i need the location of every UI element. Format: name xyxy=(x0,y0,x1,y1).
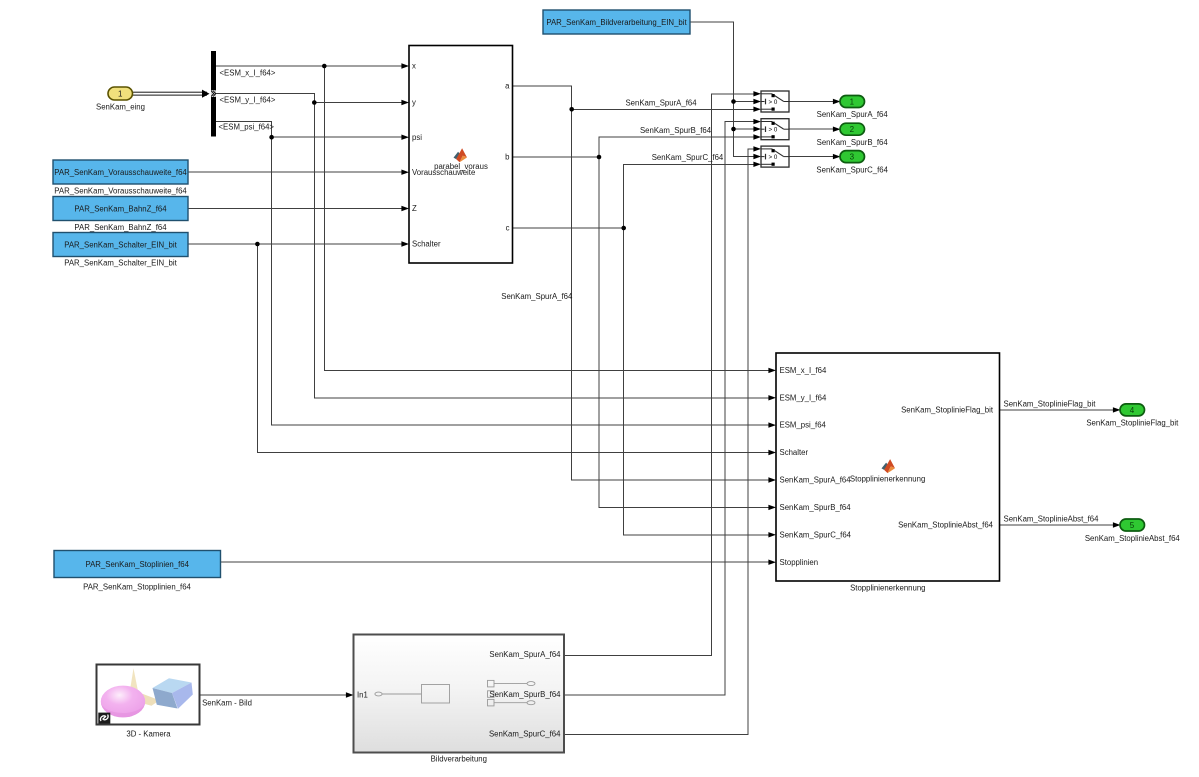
wire: parabel_voraus c -> SenKam_SpurC_f64 to Switch3 and Stopplinienerkennung xyxy=(513,162,777,538)
svg-text:> 0: > 0 xyxy=(769,127,778,134)
svg-text:3D - Kamera: 3D - Kamera xyxy=(126,729,171,738)
svg-text:psi: psi xyxy=(412,133,422,142)
wire: PAR_SenKam_Bildverarbeitung_EIN_bit control line to Switch1/2/3 xyxy=(690,22,761,159)
svg-text:PAR_SenKam_Schalter_EIN_bit: PAR_SenKam_Schalter_EIN_bit xyxy=(64,240,177,249)
svg-text:PAR_SenKam_Schalter_EIN_bit: PAR_SenKam_Schalter_EIN_bit xyxy=(64,259,177,268)
svg-text:SenKam_StoplinieAbst_f64: SenKam_StoplinieAbst_f64 xyxy=(1085,534,1181,543)
svg-text:SenKam_SpurB_f64: SenKam_SpurB_f64 xyxy=(640,126,712,135)
wire: PAR_SenKam_Schalter_EIN_bit to parabel_voraus Schalter, branch down to Stopplinienerkennung xyxy=(188,241,776,455)
inport 1 SenKam_eing xyxy=(96,87,145,111)
svg-text:Bildverarbeitung: Bildverarbeitung xyxy=(431,755,487,764)
wire: <ESM_x_I_f64> from bus selector to parabel_voraus x, branch down to Stopplinienerkennung xyxy=(216,63,776,373)
wire: Bildverarbeitung SenKam_SpurA_f64 up to Switch1 xyxy=(564,91,761,655)
constant block PAR_SenKam_Stoplinien_f64 xyxy=(54,551,221,592)
MATLAB function block parabel_voraus xyxy=(409,46,513,264)
svg-text:SenKam_SpurA_f64: SenKam_SpurA_f64 xyxy=(817,110,889,119)
svg-text:SenKam_SpurC_f64: SenKam_SpurC_f64 xyxy=(816,165,888,174)
subsystem block Bildverarbeitung xyxy=(354,635,565,764)
svg-text:In1: In1 xyxy=(357,691,368,700)
outport 4 SenKam_StoplinieFlag_bit xyxy=(1086,404,1179,428)
svg-text:Schalter: Schalter xyxy=(412,240,441,249)
svg-text:ESM_y_I_f64: ESM_y_I_f64 xyxy=(780,393,827,402)
svg-text:SenKam_StoplinieAbst_f64: SenKam_StoplinieAbst_f64 xyxy=(1004,514,1100,523)
svg-text:SenKam_eing: SenKam_eing xyxy=(96,102,145,111)
wire: 3D-Kamera SenKam - Bild to Bildverarbeitung In1 xyxy=(200,692,354,697)
svg-text:SenKam_SpurB_f64: SenKam_SpurB_f64 xyxy=(780,503,852,512)
svg-text:<ESM_psi_f64>: <ESM_psi_f64> xyxy=(219,123,275,132)
svg-text:PAR_SenKam_Bildverarbeitung_EI: PAR_SenKam_Bildverarbeitung_EIN_bit xyxy=(546,18,687,27)
svg-text:2: 2 xyxy=(850,125,855,134)
svg-text:c: c xyxy=(506,224,510,233)
wire: SenKam_StoplinieAbst_f64 to Outport 5 xyxy=(1000,522,1121,527)
wire: Bildverarbeitung SenKam_SpurC_f64 up to Switch3 xyxy=(564,146,761,734)
wire: SenKam_StoplinieFlag_bit to Outport 4 xyxy=(1000,407,1121,412)
svg-text:> 0: > 0 xyxy=(769,99,778,106)
switch block Switch2 xyxy=(761,119,789,140)
svg-text:5: 5 xyxy=(1130,521,1135,530)
svg-text:SenKam_StoplinieFlag_bit: SenKam_StoplinieFlag_bit xyxy=(901,405,994,414)
svg-text:Schalter: Schalter xyxy=(780,448,809,457)
svg-text:1: 1 xyxy=(118,90,123,99)
constant block PAR_SenKam_Vorausschauweite_f64 xyxy=(53,160,188,195)
svg-text:PAR_SenKam_BahnZ_f64: PAR_SenKam_BahnZ_f64 xyxy=(74,223,167,232)
image block 3D-Kamera xyxy=(97,665,200,739)
svg-text:SenKam_StoplinieAbst_f64: SenKam_StoplinieAbst_f64 xyxy=(898,521,994,530)
wire: parabel_voraus b -> SenKam_SpurB_f64 to Switch2 and Stopplinienerkennung xyxy=(513,134,777,510)
svg-text:3: 3 xyxy=(850,153,855,162)
switch block Switch3 xyxy=(761,146,789,167)
outport 3 SenKam_SpurC_f64 xyxy=(816,151,888,175)
outport 2 SenKam_SpurB_f64 xyxy=(817,123,889,147)
wire: Switch2 output to Outport 2 xyxy=(789,127,841,132)
svg-text:SenKam_StoplinieFlag_bit: SenKam_StoplinieFlag_bit xyxy=(1086,419,1179,428)
svg-text:SenKam_SpurB_f64: SenKam_SpurB_f64 xyxy=(817,138,889,147)
constant block PAR_SenKam_Bildverarbeitung_EIN_bit xyxy=(543,10,690,34)
svg-text:> 0: > 0 xyxy=(769,154,778,161)
svg-text:SenKam_StoplinieFlag_bit: SenKam_StoplinieFlag_bit xyxy=(1004,399,1097,408)
svg-text:PAR_SenKam_BahnZ_f64: PAR_SenKam_BahnZ_f64 xyxy=(74,204,167,213)
constant block PAR_SenKam_Schalter_EIN_bit xyxy=(53,233,188,268)
svg-text:Stopplinienerkennung: Stopplinienerkennung xyxy=(850,474,925,483)
svg-text:<ESM_x_I_f64>: <ESM_x_I_f64> xyxy=(220,69,276,78)
svg-text:SenKam_SpurA_f64: SenKam_SpurA_f64 xyxy=(501,292,573,301)
wire: PAR_SenKam_Stoplinien_f64 to Stopplinienerkennung Stopplinien xyxy=(221,560,777,565)
svg-text:SenKam_SpurC_f64: SenKam_SpurC_f64 xyxy=(780,530,852,539)
wire: SenKam_eing bus from Inport 1 to bus selector xyxy=(133,90,210,98)
bus selector xyxy=(211,51,216,137)
svg-text:1: 1 xyxy=(850,97,855,106)
svg-text:x: x xyxy=(412,62,416,71)
svg-text:SenKam_SpurC_f64: SenKam_SpurC_f64 xyxy=(652,153,724,162)
svg-text:ESM_x_I_f64: ESM_x_I_f64 xyxy=(780,366,827,375)
svg-text:a: a xyxy=(505,82,510,91)
svg-text:SenKam_SpurA_f64: SenKam_SpurA_f64 xyxy=(625,98,697,107)
svg-text:b: b xyxy=(505,153,510,162)
MATLAB function block Stopplinienerkennung xyxy=(776,353,1000,592)
svg-text:<ESM_y_I_f64>: <ESM_y_I_f64> xyxy=(220,96,276,105)
outport 1 SenKam_SpurA_f64 xyxy=(817,96,889,120)
svg-text:SenKam_SpurA_f64: SenKam_SpurA_f64 xyxy=(780,476,852,485)
svg-text:Stopplinien: Stopplinien xyxy=(780,558,819,567)
svg-text:SenKam_SpurA_f64: SenKam_SpurA_f64 xyxy=(489,650,561,659)
svg-text:Vorausschauweite: Vorausschauweite xyxy=(412,168,475,177)
switch block Switch1 xyxy=(761,91,789,112)
svg-text:y: y xyxy=(412,98,416,107)
svg-text:PAR_SenKam_Stoplinien_f64: PAR_SenKam_Stoplinien_f64 xyxy=(85,560,189,569)
svg-text:PAR_SenKam_Vorausschauweite_f6: PAR_SenKam_Vorausschauweite_f64 xyxy=(54,168,187,177)
outport 5 SenKam_StoplinieAbst_f64 xyxy=(1085,519,1181,543)
svg-text:SenKam - Bild: SenKam - Bild xyxy=(202,698,252,707)
svg-text:Z: Z xyxy=(412,204,417,213)
wire: parabel_voraus a -> SenKam_SpurA_f64 to Switch1 and Stopplinienerkennung xyxy=(513,86,777,483)
svg-text:SenKam_SpurC_f64: SenKam_SpurC_f64 xyxy=(489,730,561,739)
wire: Switch3 output to Outport 3 xyxy=(789,154,841,159)
svg-text:SenKam_SpurB_f64: SenKam_SpurB_f64 xyxy=(489,690,561,699)
svg-text:PAR_SenKam_Vorausschauweite_f6: PAR_SenKam_Vorausschauweite_f64 xyxy=(54,186,187,195)
svg-text:Stopplinienerkennung: Stopplinienerkennung xyxy=(850,583,925,592)
wire: Switch1 output to Outport 1 xyxy=(789,99,841,104)
wire: PAR_SenKam_Vorausschauweite_f64 to parabel_voraus xyxy=(188,170,409,175)
wire: PAR_SenKam_BahnZ_f64 to parabel_voraus Z xyxy=(188,206,409,211)
constant block PAR_SenKam_BahnZ_f64 xyxy=(53,197,188,232)
svg-text:ESM_psi_f64: ESM_psi_f64 xyxy=(780,421,827,430)
wire: <ESM_y_I_f64> from bus selector to parabel_voraus y, branch down to Stopplinienerkennung xyxy=(216,94,776,401)
svg-text:4: 4 xyxy=(1130,406,1135,415)
wire: Bildverarbeitung SenKam_SpurB_f64 up to Switch2 xyxy=(564,119,761,695)
wire: <ESM_psi_f64> from bus selector to parabel_voraus psi, branch down to Stopplinienerkennung xyxy=(216,121,776,428)
svg-text:PAR_SenKam_Stopplinien_f64: PAR_SenKam_Stopplinien_f64 xyxy=(83,583,191,592)
